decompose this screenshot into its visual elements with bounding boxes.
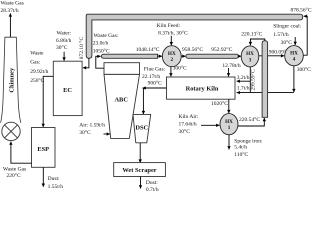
wire HX4 outlet down to kiln line <box>293 66 295 92</box>
wire duct2 arrow into HX2 <box>158 55 162 57</box>
duct ABC outlet elbow to top duct and left vertical duct down to EC <box>86 14 303 58</box>
wire kiln feed inlet into HX2 <box>170 36 172 46</box>
svg-text:220.54°C: 220.54°C <box>239 116 260 123</box>
wire HX2 feed outlet into kiln (300C) <box>170 67 172 77</box>
svg-text:Kiln Air:: Kiln Air: <box>179 114 199 120</box>
wire wet scraper dust outlet <box>140 177 142 189</box>
svg-text:HX: HX <box>290 50 298 56</box>
wire HX3 outlet down and split to kiln (3.2t/h and 1.7t/h) <box>237 67 294 93</box>
svg-text:2: 2 <box>171 57 174 63</box>
svg-text:HX: HX <box>246 51 254 57</box>
svg-text:0.7t/h: 0.7t/h <box>146 187 159 193</box>
svg-text:220°C: 220°C <box>7 172 21 179</box>
wire 12.78t/h inlet into kiln <box>228 68 230 76</box>
svg-text:30°C: 30°C <box>79 129 91 136</box>
svg-text:Rotary Kiln: Rotary Kiln <box>186 86 219 93</box>
svg-text:1.57t/h: 1.57t/h <box>273 32 289 38</box>
HX1 <box>220 114 238 135</box>
wire water inlet into EC <box>63 52 65 61</box>
svg-text:Waste: Waste <box>30 50 44 56</box>
HX4 <box>285 46 304 66</box>
fan at chimney base <box>2 122 20 140</box>
wire air inlet into ABC <box>104 133 110 135</box>
svg-text:HX: HX <box>168 51 176 57</box>
svg-text:110°C: 110°C <box>234 151 248 158</box>
svg-text:1050°C: 1050°C <box>93 47 110 54</box>
wire duct outlet into EC right side <box>83 58 89 68</box>
HX3 <box>241 46 259 67</box>
svg-text:22.17t/h: 22.17t/h <box>142 74 160 80</box>
svg-text:872.10 °C: 872.10 °C <box>78 36 85 59</box>
svg-text:1: 1 <box>228 125 231 131</box>
svg-text:6.86t/h: 6.86t/h <box>56 38 72 44</box>
svg-text:Waste Gas:: Waste Gas: <box>94 33 119 39</box>
chimney <box>1 37 21 123</box>
DSC vessel <box>133 114 151 142</box>
wire EC outlet down to ESP <box>43 76 53 127</box>
svg-text:HX: HX <box>225 119 233 125</box>
wire duct3 arrow into HX3 <box>238 55 241 57</box>
svg-text:Waste Gas: Waste Gas <box>1 1 24 7</box>
svg-text:Water:: Water: <box>57 31 72 37</box>
svg-text:23.0t/h: 23.0t/h <box>93 41 109 47</box>
svg-text:ESP: ESP <box>37 146 49 153</box>
svg-text:Gas:: Gas: <box>30 60 41 66</box>
wire ABC top outlet into duct <box>96 56 104 68</box>
wire HX3 to HX4 (900.09C) <box>259 55 284 57</box>
svg-text:Slinger coal:: Slinger coal: <box>273 24 301 30</box>
svg-text:DSC: DSC <box>135 125 148 132</box>
svg-text:952.92°C: 952.92°C <box>211 46 232 53</box>
svg-text:30°C: 30°C <box>56 44 68 51</box>
svg-text:30°C: 30°C <box>281 39 293 46</box>
svg-text:28.37t/h: 28.37t/h <box>1 8 19 14</box>
duct ABC to HX2 (1048.14C) <box>101 54 157 58</box>
Wet Scraper box <box>114 163 166 177</box>
ESP box <box>32 128 56 168</box>
wire kiln air riser top to HX3 (220.13C) <box>250 39 264 45</box>
svg-text:300°C: 300°C <box>297 66 311 73</box>
duct vertical kiln air riser <box>262 41 268 118</box>
svg-text:Waste Gas: Waste Gas <box>3 166 26 172</box>
svg-text:1048.14°C: 1048.14°C <box>136 46 160 53</box>
wire chimney waste gas outlet arrow <box>9 13 11 37</box>
wire HX1 sponge iron outlet <box>228 135 230 150</box>
svg-text:250°C: 250°C <box>30 77 44 84</box>
wire HX4 gas outlet up to top duct (878.56C) <box>303 16 307 55</box>
svg-text:30°C: 30°C <box>179 128 191 135</box>
HX2 <box>162 46 181 67</box>
wire kiln sponge iron outlet down to HX1 (1020C) <box>228 99 230 113</box>
wire kiln exit flue gas to ABC and DSC <box>143 88 167 114</box>
wire HX1 air outlet to riser bottom (220.54C) <box>238 118 264 126</box>
svg-text:3: 3 <box>249 57 252 63</box>
wire ESP dust outlet <box>42 167 44 187</box>
wire DSC outlet to wet scraper <box>139 143 141 163</box>
svg-text:1.55t/h: 1.55t/h <box>48 184 64 190</box>
svg-text:ABC: ABC <box>114 96 128 103</box>
svg-text:1.7t/h: 1.7t/h <box>237 85 250 91</box>
svg-text:878.56°C: 878.56°C <box>291 7 312 14</box>
svg-text:220.13°C: 220.13°C <box>241 31 262 38</box>
svg-text:Wet Scraper: Wet Scraper <box>122 167 156 174</box>
svg-text:299.59°C: 299.59°C <box>250 69 257 90</box>
svg-text:1020°C: 1020°C <box>211 100 228 107</box>
wire ESP outlet to fan <box>11 142 32 164</box>
svg-text:12.78t/h: 12.78t/h <box>222 63 240 69</box>
svg-text:4: 4 <box>293 57 296 63</box>
svg-text:Dust:: Dust: <box>146 180 158 186</box>
svg-text:29.92t/h: 29.92t/h <box>30 69 48 75</box>
svg-text:EC: EC <box>63 87 72 94</box>
svg-text:3.2t/h: 3.2t/h <box>237 75 250 81</box>
svg-text:5.4t/h: 5.4t/h <box>234 145 247 151</box>
svg-text:Chimney: Chimney <box>9 67 16 93</box>
svg-text:958.56°C: 958.56°C <box>182 46 203 53</box>
svg-text:900°C: 900°C <box>148 80 162 87</box>
wire slinger coal inlet into HX4 <box>294 37 296 45</box>
svg-text:17.64t/h: 17.64t/h <box>179 122 197 128</box>
wire kiln air inlet into HX1 <box>201 124 219 126</box>
duct HX2 to HX3 (958.56C - 952.92C) <box>186 54 239 58</box>
svg-text:Dust:: Dust: <box>48 176 60 182</box>
svg-text:Air: 1.59t/h: Air: 1.59t/h <box>79 123 105 129</box>
svg-text:Kiln Feed:: Kiln Feed: <box>157 23 181 29</box>
svg-text:8.37t/h, 30°C: 8.37t/h, 30°C <box>158 30 188 37</box>
wire HX2 exit arrow into duct3 <box>181 55 185 57</box>
ABC vessel <box>104 74 140 138</box>
svg-text:Flue Gas:: Flue Gas: <box>144 67 166 73</box>
EC box <box>53 61 82 115</box>
Rotary Kiln box <box>167 77 236 99</box>
